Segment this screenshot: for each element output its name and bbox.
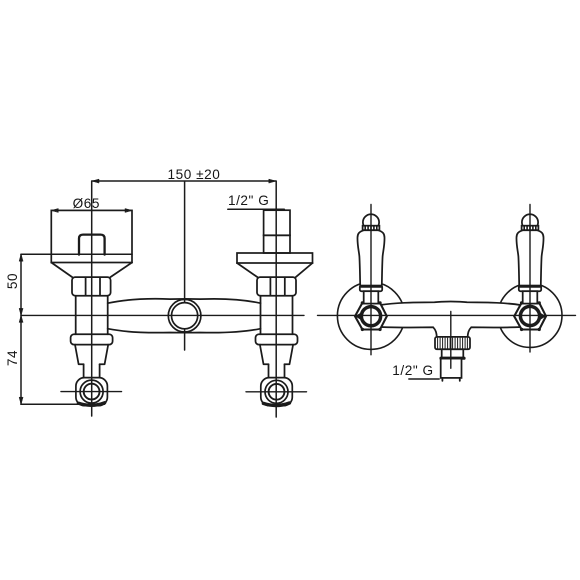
- svg-text:74: 74: [5, 350, 20, 366]
- svg-text:50: 50: [5, 273, 20, 289]
- svg-text:Ø65: Ø65: [73, 196, 100, 211]
- svg-text:1/2" G: 1/2" G: [228, 193, 269, 208]
- svg-text:1/2" G: 1/2" G: [392, 363, 433, 378]
- svg-text:150 ±20: 150 ±20: [168, 167, 221, 182]
